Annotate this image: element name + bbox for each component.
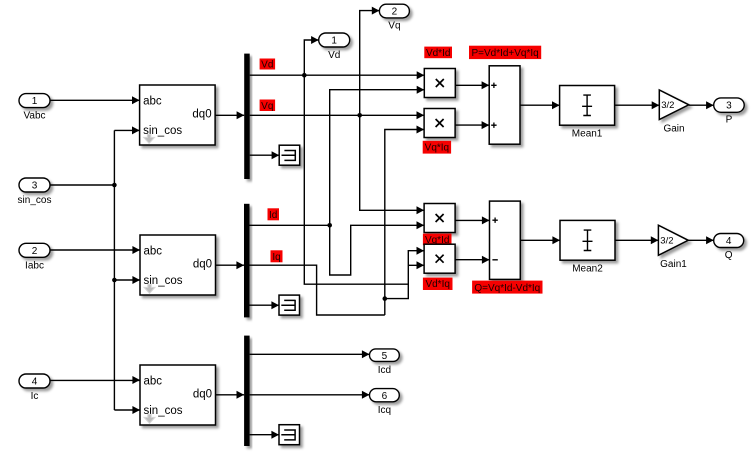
svg-text:Vd: Vd <box>328 50 340 61</box>
sum S1 <box>489 66 520 144</box>
svg-text:Ic: Ic <box>31 391 39 402</box>
outport 1 Vd <box>319 33 350 61</box>
svg-text:Vd: Vd <box>261 60 273 71</box>
outport 2 Vq <box>379 4 409 32</box>
mean block Mean2 <box>560 220 615 274</box>
wire Vd down and across to vertical x408 <box>304 75 408 284</box>
multiplier M3 Vq*Id <box>424 204 455 233</box>
svg-text:Vq*Iq: Vq*Iq <box>425 142 449 153</box>
label Id red <box>268 208 280 221</box>
multiplier M4 Vd*Iq <box>424 244 455 273</box>
multiplier M2 Vq*Iq <box>424 109 455 138</box>
gain block Gain1 3/2 <box>658 225 688 270</box>
abc_to_dq0 block2 <box>140 235 216 295</box>
wire S1 out to Mean1 <box>520 101 560 109</box>
svg-text:3/2: 3/2 <box>660 236 673 247</box>
terminator T3 <box>279 425 300 445</box>
svg-text:1: 1 <box>32 96 38 107</box>
svg-text:5: 5 <box>382 351 388 362</box>
svg-text:P: P <box>726 114 733 125</box>
svg-text:3: 3 <box>32 181 38 192</box>
wire block3 dq0 to demux3 <box>216 391 245 399</box>
outport 5 Icd <box>370 349 400 376</box>
svg-text:6: 6 <box>382 391 388 402</box>
wire block1 dq0 to demux1 <box>215 111 244 119</box>
label Vd red <box>260 59 276 71</box>
svg-text:1: 1 <box>331 36 337 47</box>
svg-text:Vabc: Vabc <box>23 111 45 122</box>
label Vq red <box>260 100 276 112</box>
wire Gain to outport3 <box>689 101 714 109</box>
wire Vabc to block1 abc input <box>50 96 140 104</box>
svg-text:4: 4 <box>32 377 38 388</box>
wire Gain1 to outport4 <box>688 236 714 244</box>
svg-text:Icq: Icq <box>378 405 391 416</box>
svg-text:Id: Id <box>269 210 277 221</box>
demux bar 3 <box>244 336 250 446</box>
wire demux3 third output to terminator3 <box>250 431 279 439</box>
label Q equation red <box>472 281 542 294</box>
label Vd*Iq red <box>423 278 453 290</box>
junction Id <box>327 223 332 228</box>
wire M1 out to sum1 <box>455 81 489 89</box>
junction Iq <box>383 296 388 301</box>
wire multiplier4 input2 stub <box>408 261 424 269</box>
abc_to_dq0 block3 <box>140 365 216 425</box>
svg-text:3/2: 3/2 <box>661 100 674 111</box>
label Vq*Id red <box>423 234 452 246</box>
svg-text:Mean1: Mean1 <box>572 128 603 139</box>
wire M2 out to sum1 <box>455 121 489 129</box>
gain block Gain 3/2 <box>659 90 689 135</box>
svg-text:Vd*Id: Vd*Id <box>426 48 450 59</box>
wire block2 dq0 to demux2 <box>216 261 245 269</box>
inport 3 sin_cos <box>18 178 52 206</box>
wire Id up to multiplier1 input2 <box>330 86 425 226</box>
wire Mean2 to Gain1 <box>615 236 658 244</box>
wire sin_cos to block2 <box>114 276 140 284</box>
wire net Iq from demux2 staircase <box>250 265 385 315</box>
wire sin_cos vertical bus <box>113 130 115 410</box>
wire Vq down to multiplier3 input1 <box>360 115 424 214</box>
label Vq*Iq red <box>423 141 451 154</box>
svg-text:Iq: Iq <box>272 252 280 263</box>
junction Vd <box>302 73 307 78</box>
wire sin_cos to block1 <box>114 126 139 134</box>
svg-text:4: 4 <box>726 236 732 247</box>
wire Mean1 to Gain <box>615 101 660 109</box>
wire net Id from demux2 <box>250 224 330 226</box>
label Iq red <box>271 250 283 263</box>
junction sin_cos at block2 input <box>112 278 117 283</box>
wire demux1 third output to terminator1 <box>250 151 280 159</box>
label Vd*Id red <box>424 47 452 59</box>
wire Iq branch to multiplier4 inputs <box>385 247 424 299</box>
wire sin_cos to block3 <box>114 406 140 414</box>
wire demux3 second output to outport6 <box>250 391 370 399</box>
wire Id u-loop down to multiplier3 input2 <box>330 221 424 275</box>
svg-text:Q=Vq*Id-Vd*Iq: Q=Vq*Id-Vd*Iq <box>474 283 540 294</box>
svg-text:Gain: Gain <box>663 124 684 135</box>
svg-text:Vd*Iq: Vd*Iq <box>425 279 449 290</box>
terminator T2 <box>279 295 300 315</box>
demux bar 1 <box>244 54 250 179</box>
sum S2 <box>490 201 521 279</box>
outport 6 Icq <box>370 389 400 416</box>
svg-text:3: 3 <box>726 101 732 112</box>
wire M4 out to sum2 <box>455 256 489 264</box>
wire net Vq from demux1 to multiplier2 input1 <box>250 111 424 119</box>
svg-text:Vq: Vq <box>388 21 400 32</box>
outport 3 P <box>714 98 745 126</box>
abc_to_dq0 block1 <box>140 85 216 145</box>
terminator T1 <box>279 145 300 165</box>
demux bar 2 <box>244 204 250 318</box>
wire M3 out to sum2 <box>455 216 489 224</box>
wire Ic to block3 abc input <box>50 376 140 384</box>
svg-text:P=Vd*Id+Vq*Iq: P=Vd*Id+Vq*Iq <box>471 48 538 59</box>
outport 4 Q <box>714 234 744 261</box>
inport 4 Ic <box>19 374 50 402</box>
junction Vq <box>357 113 362 118</box>
wire net Vd from demux1 to multiplier1 input1 <box>250 71 425 79</box>
svg-text:Mean2: Mean2 <box>572 264 603 275</box>
wire demux2 third output to terminator2 <box>250 301 280 309</box>
svg-text:Q: Q <box>725 250 733 261</box>
inport 1 Vabc <box>19 94 50 122</box>
wire Vq up to outport2 <box>360 7 380 116</box>
label P equation red <box>469 46 541 59</box>
svg-text:Iabc: Iabc <box>25 260 44 271</box>
svg-text:sin_cos: sin_cos <box>18 195 52 206</box>
wire S2 out to Mean2 <box>520 236 560 244</box>
multiplier M1 Vd*Id <box>424 69 455 98</box>
svg-text:2: 2 <box>392 7 398 18</box>
svg-text:Vq: Vq <box>261 101 273 112</box>
wire Iabc to block2 abc input <box>50 246 140 254</box>
svg-text:2: 2 <box>32 246 38 257</box>
wire Vd up to outport1 <box>304 36 318 75</box>
svg-text:Icd: Icd <box>378 365 391 376</box>
junction sin_cos at port3 wire <box>112 183 117 188</box>
inport 2 Iabc <box>19 243 50 271</box>
wire demux3 first output to outport5 <box>250 350 370 358</box>
mean block Mean1 <box>560 86 615 140</box>
svg-text:Gain1: Gain1 <box>660 259 687 270</box>
wire Iq vertical up to multiplier2 input2 <box>385 126 424 316</box>
wire sin_cos horizontal <box>50 184 114 186</box>
